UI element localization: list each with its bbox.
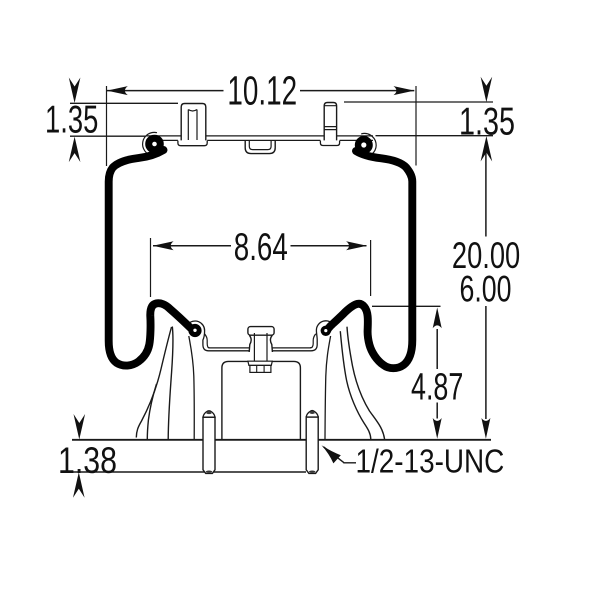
svg-text:10.12: 10.12 (227, 68, 297, 114)
svg-text:1.38: 1.38 (58, 439, 117, 481)
svg-text:8.64: 8.64 (234, 225, 288, 269)
svg-text:6.00: 6.00 (460, 268, 512, 310)
svg-text:1.35: 1.35 (459, 99, 515, 143)
svg-text:1/2-13-UNC: 1/2-13-UNC (356, 443, 505, 480)
svg-text:1.35: 1.35 (45, 98, 98, 142)
svg-text:4.87: 4.87 (411, 366, 463, 409)
